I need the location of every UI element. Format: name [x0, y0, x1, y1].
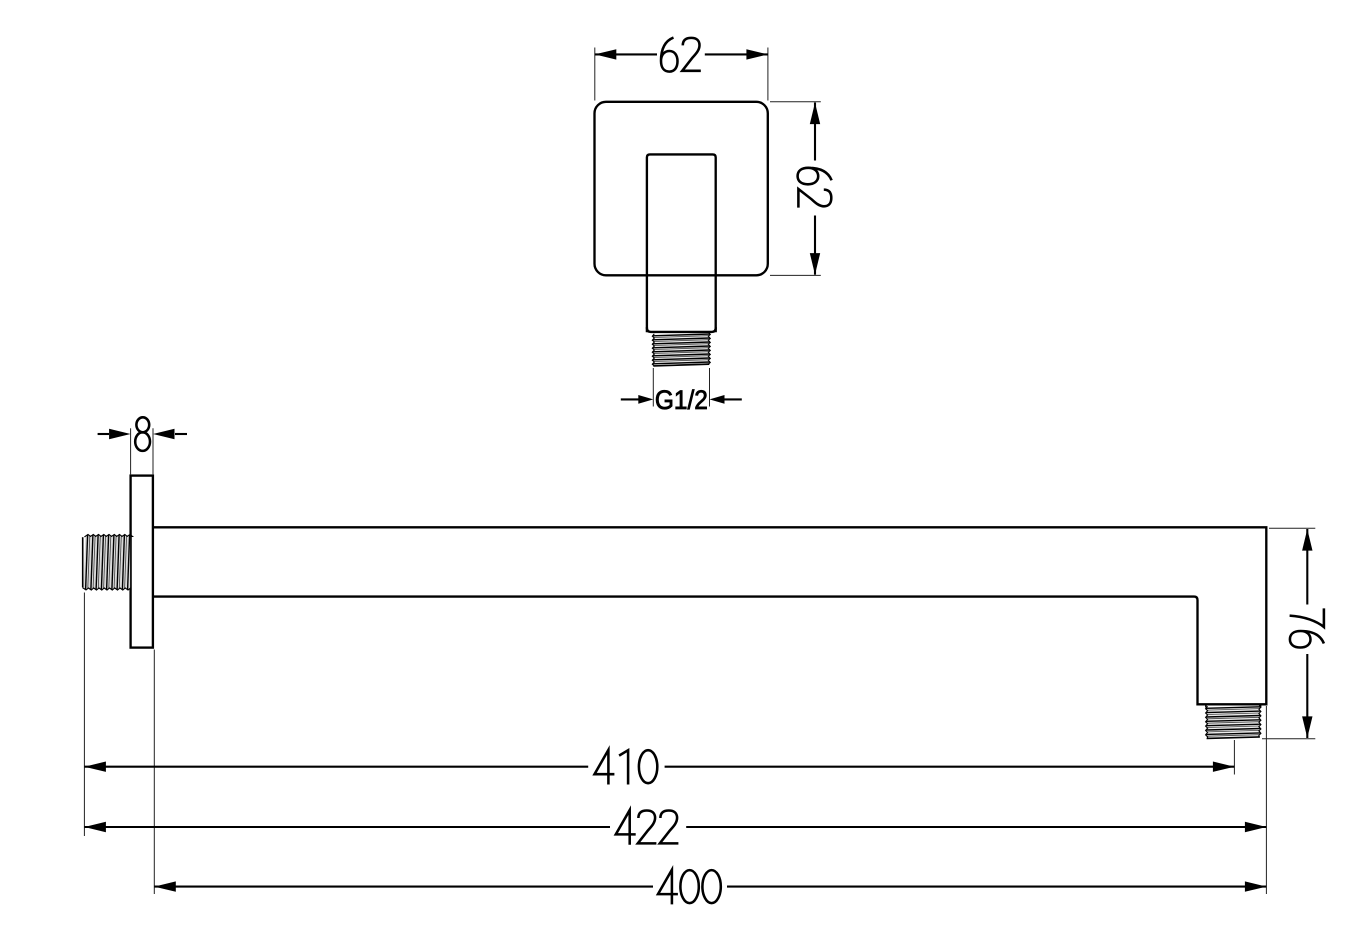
- dimension 400: dimension line: [154, 881, 1266, 891]
- label 400 arm length: [658, 870, 721, 905]
- label 410 to outlet axis: [595, 750, 658, 785]
- dimension 8: arrows: [98, 429, 187, 439]
- outlet G1/2 thread: [1206, 705, 1261, 739]
- dimension G1/2: arrows: [621, 395, 742, 404]
- label 62 height: [798, 168, 832, 208]
- extension line: arm outer end (422/400): [1265, 706, 1267, 894]
- dimension 76: extension lines: [1262, 528, 1315, 739]
- outlet thread side steps: [1206, 705, 1261, 708]
- dimension 422: dimension line: [84, 822, 1266, 832]
- dimension G1/2: extension lines: [653, 368, 709, 407]
- extension line: outlet axis (410): [1233, 740, 1235, 775]
- dimension 410: dimension line: [84, 762, 1234, 772]
- connector tube G1/2 thread: [652, 332, 710, 366]
- dimension 76: dimension line: [1302, 529, 1312, 738]
- label 62 width: [661, 38, 701, 72]
- wall-end G1/2 threaded nipple: [82, 534, 132, 590]
- connector tube body (top view): [647, 154, 716, 332]
- dimension 62 height: extension lines: [770, 102, 821, 276]
- escutcheon square plate (top view): [595, 102, 768, 275]
- dimension 62 height: dimension line: [810, 103, 820, 275]
- dimension 62 width: dimension line: [595, 49, 768, 59]
- extension line: left thread end (410/422): [83, 593, 85, 837]
- shower arm body: [153, 527, 1266, 704]
- connector tube bottom edge: [647, 327, 716, 332]
- dimension 8: extension lines: [131, 428, 153, 474]
- label 76 drop height: [1290, 608, 1324, 647]
- label 8 plate thickness: [135, 417, 150, 451]
- label 422 overall length: [616, 810, 679, 845]
- dimension 62 width: extension lines: [595, 48, 768, 101]
- svg-text:G1/2: G1/2: [655, 385, 708, 415]
- extension line: plate right face (400): [153, 650, 155, 895]
- wall flange plate (side view): [131, 476, 153, 648]
